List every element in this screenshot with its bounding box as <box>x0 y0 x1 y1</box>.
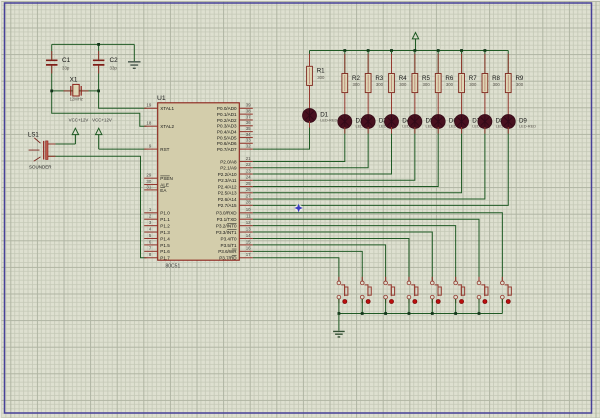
wire D9 to P2.7 <box>253 129 508 206</box>
wire bus to R7 <box>461 51 463 74</box>
svg-text:PSEN: PSEN <box>160 176 173 181</box>
wire sounder top to VCC1 <box>48 143 75 145</box>
svg-text:LED-RED: LED-RED <box>519 123 536 128</box>
pin P0.2/AD2 (37) <box>217 114 253 123</box>
wire P3.6 to button 2 <box>253 251 362 281</box>
LED D8 <box>478 115 513 129</box>
svg-text:P1.3: P1.3 <box>160 230 170 235</box>
svg-text:38: 38 <box>246 109 251 114</box>
svg-text:28: 28 <box>246 200 251 205</box>
node marker (blue star) <box>294 204 302 213</box>
svg-text:P3.1/TXD: P3.1/TXD <box>217 217 238 222</box>
pin P3.5/T1 (15) <box>221 239 253 248</box>
svg-text:11: 11 <box>246 214 251 219</box>
svg-text:LS1: LS1 <box>28 132 39 138</box>
junction ground bus / button 4 <box>408 312 411 315</box>
resistor R8 (300) <box>482 74 501 93</box>
svg-text:P0.3/AD3: P0.3/AD3 <box>217 124 237 129</box>
svg-text:29: 29 <box>146 173 151 178</box>
wire button 3 to ground bus <box>385 299 387 314</box>
svg-text:300: 300 <box>353 82 361 87</box>
svg-text:P0.4/AD4: P0.4/AD4 <box>217 130 237 135</box>
svg-text:35: 35 <box>246 126 251 131</box>
svg-text:16: 16 <box>246 246 251 251</box>
pin stub D2 bottom <box>344 127 346 134</box>
ground (top) <box>128 62 141 69</box>
svg-text:P2.3/A11: P2.3/A11 <box>218 178 237 183</box>
push button B2 <box>360 277 371 304</box>
svg-text:300: 300 <box>317 75 325 80</box>
pin stub D1 bottom <box>309 121 311 128</box>
svg-text:P3.5/T1: P3.5/T1 <box>221 243 238 248</box>
svg-text:300: 300 <box>423 82 431 87</box>
pin stub D7 bottom <box>461 127 463 134</box>
wire bus to R2 <box>344 51 346 74</box>
power VCC arrow 2 <box>92 117 112 149</box>
pin stub D9 bottom <box>507 127 509 134</box>
LED D9 <box>501 115 536 129</box>
wire bus to R4 <box>391 51 393 74</box>
svg-text:24: 24 <box>246 175 251 180</box>
svg-text:30: 30 <box>146 179 151 184</box>
resistor R1 (300) <box>307 66 326 85</box>
pin stub R2 top <box>344 54 346 74</box>
svg-text:39: 39 <box>246 103 251 108</box>
pin P0.3/AD3 (36) <box>217 120 253 129</box>
svg-text:26: 26 <box>246 187 251 192</box>
pin P2.4/A12 (25) <box>218 181 253 190</box>
pin P0.7/AD7 (32) <box>217 144 253 153</box>
wire C1 top lead <box>51 44 53 59</box>
svg-text:C2: C2 <box>110 57 119 64</box>
svg-text:21: 21 <box>246 156 251 161</box>
svg-text:36: 36 <box>246 120 251 125</box>
wire P3.2 to button 6 <box>253 226 456 281</box>
svg-text:P0.7/AD7: P0.7/AD7 <box>217 147 237 152</box>
svg-text:300: 300 <box>446 82 454 87</box>
svg-text:22: 22 <box>246 162 251 167</box>
pin stub D5 bottom <box>414 127 416 134</box>
svg-text:34: 34 <box>246 132 251 137</box>
wire VCC2 to RST <box>99 148 147 150</box>
pin stub R6 top <box>437 54 439 74</box>
wire button 5 to ground bus <box>431 299 433 314</box>
pin stub R3 to D3 <box>367 93 369 117</box>
svg-text:P3.7/RD: P3.7/RD <box>219 256 237 261</box>
wire bus to R6 <box>437 51 439 74</box>
wire button 6 to ground bus <box>455 299 457 314</box>
push button B6 <box>454 277 465 304</box>
pin P3.2/INT0 (12) <box>216 220 253 229</box>
pin P0.0/AD0 (39) <box>217 103 253 112</box>
pin stub R3 top <box>367 54 369 74</box>
pin P1.5 (6) <box>144 239 170 248</box>
pin P3.1/TXD (11) <box>217 214 253 223</box>
svg-text:R7: R7 <box>469 75 477 82</box>
power VCC arrow top <box>412 33 418 51</box>
svg-text:R3: R3 <box>375 75 383 82</box>
junction bus / C2 <box>97 43 100 46</box>
svg-text:27: 27 <box>246 193 251 198</box>
svg-text:300: 300 <box>376 82 384 87</box>
svg-text:19: 19 <box>146 103 151 108</box>
pin P1.0 (1) <box>144 207 170 216</box>
svg-text:XTAL2: XTAL2 <box>160 124 174 129</box>
resistor R2 (300) <box>342 74 361 93</box>
svg-text:P0.0/AD0: P0.0/AD0 <box>217 106 237 111</box>
svg-text:P3.0/RXD: P3.0/RXD <box>216 211 237 216</box>
svg-text:VCC+12V: VCC+12V <box>69 117 89 122</box>
wire bus to R3 <box>367 51 369 74</box>
pin stub R8 to D8 <box>484 93 486 117</box>
resistor R7 (300) <box>459 74 478 93</box>
ground (bottom) <box>333 331 345 337</box>
svg-text:P2.1/A9: P2.1/A9 <box>220 166 237 171</box>
svg-text:P1.7: P1.7 <box>160 256 170 261</box>
pin stub R4 to D4 <box>391 93 393 117</box>
pin P0.1/AD1 (38) <box>217 109 253 118</box>
svg-text:VCC+12V: VCC+12V <box>92 117 112 122</box>
pin stub R9 to D9 <box>507 93 509 117</box>
wire bus to R1 <box>309 51 311 67</box>
svg-text:80C51: 80C51 <box>166 263 181 269</box>
svg-text:SOUNDER: SOUNDER <box>29 165 52 170</box>
pin P1.7 (8) <box>144 252 170 261</box>
svg-text:300: 300 <box>399 82 407 87</box>
pin P1.1 (2) <box>144 214 170 223</box>
pin P1.6 (7) <box>144 246 170 255</box>
wire P3.4 to button 4 <box>253 238 409 281</box>
svg-text:33p: 33p <box>62 65 70 70</box>
svg-text:P1.0: P1.0 <box>160 211 170 216</box>
svg-text:P3.2/INT0: P3.2/INT0 <box>216 224 237 229</box>
wire button 2 to ground bus <box>361 299 363 314</box>
wire bus to R9 <box>507 51 509 74</box>
resistor R9 (300) <box>505 74 524 93</box>
push button B1 <box>337 277 348 304</box>
svg-text:R1: R1 <box>317 68 325 75</box>
LED D5 <box>408 115 443 129</box>
resistor R6 (300) <box>435 74 454 93</box>
wire button 8 to ground bus <box>501 299 503 314</box>
pin P3.0/RXD (10) <box>216 207 253 216</box>
pin stub R8 top <box>484 54 486 74</box>
svg-text:EA: EA <box>160 188 167 193</box>
svg-text:P2.7/A15: P2.7/A15 <box>218 203 237 208</box>
wire D4 to P2.2 <box>253 129 392 175</box>
wire D6 to P2.4 <box>253 129 438 187</box>
svg-text:14: 14 <box>246 233 251 238</box>
LED D7 <box>455 115 490 129</box>
wire bus to R8 <box>484 51 486 74</box>
pin stub R9 top <box>507 54 509 74</box>
svg-text:300: 300 <box>493 82 501 87</box>
LED D2 <box>338 115 373 129</box>
svg-text:LED-RED: LED-RED <box>320 117 337 122</box>
pin P2.6/A14 (27) <box>218 193 253 202</box>
pin RST (9) <box>144 144 169 153</box>
wire D7 to P2.5 <box>253 129 462 193</box>
pin P2.5/A13 (26) <box>218 187 253 196</box>
op-chip U1 body <box>157 95 239 269</box>
svg-text:P2.6/A14: P2.6/A14 <box>218 197 237 202</box>
pin stub R7 top <box>461 54 463 74</box>
svg-text:37: 37 <box>246 114 251 119</box>
junction bus / R4 <box>390 49 393 52</box>
pin P2.1/A9 (22) <box>220 162 253 171</box>
push button B4 <box>407 277 418 304</box>
wire D2 to P2.0 <box>253 129 345 162</box>
pin P0.5/AD5 (34) <box>217 132 253 141</box>
svg-text:10: 10 <box>246 207 251 212</box>
wire D5 to P2.3 <box>253 129 415 181</box>
svg-text:33p: 33p <box>110 65 118 70</box>
junction ground bus / button 5 <box>431 312 434 315</box>
pin stub D8 bottom <box>484 127 486 134</box>
svg-text:18: 18 <box>146 121 151 126</box>
crystal X1 <box>64 77 89 102</box>
svg-text:RST: RST <box>160 147 169 152</box>
svg-text:C1: C1 <box>62 57 71 64</box>
svg-text:31: 31 <box>146 184 151 189</box>
wire ground stem <box>133 44 135 61</box>
pin P1.4 (5) <box>144 233 170 242</box>
pin stub R4 top <box>391 54 393 74</box>
svg-text:P3.3/INT1: P3.3/INT1 <box>216 230 237 235</box>
junction bus / R6 <box>437 49 440 52</box>
junction bus / R2 <box>343 49 346 52</box>
push button B8 <box>501 277 512 304</box>
svg-text:ALE: ALE <box>160 182 169 187</box>
wire button 1 to ground bus <box>338 299 340 314</box>
push button B7 <box>477 277 488 304</box>
svg-text:P2.0/A8: P2.0/A8 <box>220 159 237 164</box>
pin stub R5 top <box>414 54 416 74</box>
pin P3.3/INT1 (13) <box>216 226 253 235</box>
wire resistor supply bus <box>310 50 509 52</box>
junction X1 right node <box>97 90 100 93</box>
junction ground bus / button 2 <box>361 312 364 315</box>
svg-text:23: 23 <box>246 168 251 173</box>
pin P3.6/WR (16) <box>218 246 253 255</box>
svg-text:P2.4/A12: P2.4/A12 <box>218 184 237 189</box>
svg-text:25: 25 <box>246 181 251 186</box>
wire P3.5 to button 3 <box>253 245 386 281</box>
junction bus / R5 <box>413 49 416 52</box>
capacitor C2 <box>93 51 118 74</box>
pin stub D6 bottom <box>437 127 439 134</box>
svg-text:12: 12 <box>246 220 251 225</box>
pin ALE (30) <box>144 179 169 188</box>
LED D6 <box>431 115 466 129</box>
wire button 4 to ground bus <box>408 299 410 314</box>
junction ground bus / button 6 <box>454 312 457 315</box>
svg-text:P1.4: P1.4 <box>160 236 170 241</box>
pin stub D4 bottom <box>391 127 393 134</box>
svg-text:P1.6: P1.6 <box>160 249 170 254</box>
svg-text:P2.2/A10: P2.2/A10 <box>218 172 237 177</box>
svg-text:P1.5: P1.5 <box>160 243 170 248</box>
wire bus to R5 <box>414 51 416 74</box>
pin stub R6 to D6 <box>437 93 439 117</box>
wire P3.1 to button 7 <box>253 219 479 281</box>
wire C1 top to ground bus <box>52 43 135 45</box>
resistor R4 (300) <box>389 74 408 93</box>
pin P3.7/RD (17) <box>219 252 253 261</box>
wire sounder bottom to P1.7 <box>48 156 146 257</box>
svg-text:P0.5/AD5: P0.5/AD5 <box>217 135 237 140</box>
svg-text:XTAL1: XTAL1 <box>160 106 174 111</box>
pin P0.6/AD6 (33) <box>217 138 253 147</box>
wire C2 bottom lead / XTAL1 net <box>99 66 147 109</box>
svg-text:P0.1/AD1: P0.1/AD1 <box>217 112 237 117</box>
pin P2.7/A15 (28) <box>218 200 253 209</box>
wire D3 to P2.1 <box>253 129 368 168</box>
svg-text:13: 13 <box>246 226 251 231</box>
LED D4 <box>385 115 420 129</box>
power VCC arrow 1 <box>69 117 89 144</box>
svg-text:R5: R5 <box>422 75 430 82</box>
resistor R3 (300) <box>365 74 384 93</box>
pin P1.2 (3) <box>144 220 170 229</box>
LED D3 <box>361 115 396 129</box>
pin stub D3 bottom <box>367 127 369 134</box>
svg-text:R8: R8 <box>492 75 500 82</box>
pin P1.3 (4) <box>144 226 170 235</box>
wire C1 bottom lead / XTAL2 net <box>52 66 147 127</box>
wire C2 top lead <box>98 44 100 59</box>
junction X1 left node <box>50 90 53 93</box>
wire D8 to P2.6 <box>253 129 485 200</box>
svg-text:X1: X1 <box>70 77 78 84</box>
svg-text:R4: R4 <box>399 75 407 82</box>
svg-text:P2.5/A13: P2.5/A13 <box>218 191 237 196</box>
wire P3.0 to button 8 <box>253 213 503 281</box>
pin stub R1 to D1 <box>309 85 311 110</box>
pin P2.3/A11 (24) <box>218 175 253 184</box>
svg-text:P3.4/T0: P3.4/T0 <box>221 236 238 241</box>
wire D1 to P0.7 <box>253 123 310 150</box>
wire ground bus stem <box>338 314 340 331</box>
svg-text:15: 15 <box>246 239 251 244</box>
pin P3.4/T0 (14) <box>221 233 253 242</box>
svg-text:U1: U1 <box>157 95 166 102</box>
wire button 7 to ground bus <box>478 299 480 314</box>
pin P2.2/A10 (23) <box>218 168 253 177</box>
junction bus / R7 <box>460 49 463 52</box>
push button B3 <box>384 277 395 304</box>
pin PSEN (29) <box>144 173 173 182</box>
pin XTAL1 (19) <box>144 103 174 112</box>
svg-text:R9: R9 <box>515 75 523 82</box>
wire P3.7 to button 1 <box>253 258 339 281</box>
wire P3.3 to button 5 <box>253 232 432 281</box>
svg-text:33: 33 <box>246 138 251 143</box>
push button B5 <box>430 277 441 304</box>
pin EA (31) <box>144 184 167 193</box>
svg-text:R2: R2 <box>352 75 360 82</box>
svg-text:P1.1: P1.1 <box>160 217 170 222</box>
svg-text:P3.6/WR: P3.6/WR <box>218 249 237 254</box>
pin stub R1 top <box>309 54 311 67</box>
pin P2.0/A8 (21) <box>220 156 253 165</box>
svg-text:P1.2: P1.2 <box>160 224 170 229</box>
svg-text:300: 300 <box>469 82 477 87</box>
svg-text:P0.2/AD2: P0.2/AD2 <box>217 118 237 123</box>
svg-text:12MHz: 12MHz <box>70 97 83 102</box>
resistor R5 (300) <box>412 74 431 93</box>
junction ground bus / button 3 <box>384 312 387 315</box>
capacitor C1 <box>46 51 71 74</box>
wire crystal row <box>52 90 99 92</box>
pin stub R7 to D7 <box>461 93 463 117</box>
svg-text:17: 17 <box>246 252 251 257</box>
sounder LS1 <box>28 132 56 169</box>
svg-text:32: 32 <box>246 144 251 149</box>
svg-text:R6: R6 <box>445 75 453 82</box>
wire ground bus <box>339 313 502 315</box>
junction bus / R8 <box>484 49 487 52</box>
junction ground bus / button 1 <box>338 312 341 315</box>
LED D1 <box>303 109 338 123</box>
pin P0.4/AD4 (35) <box>217 126 253 135</box>
pin stub R2 to D2 <box>344 93 346 117</box>
pin XTAL2 (18) <box>144 121 174 130</box>
junction bus / R3 <box>367 49 370 52</box>
pin stub R5 to D5 <box>414 93 416 117</box>
svg-text:P0.6/AD6: P0.6/AD6 <box>217 141 237 146</box>
svg-text:300: 300 <box>516 82 524 87</box>
junction ground bus / button 7 <box>478 312 481 315</box>
